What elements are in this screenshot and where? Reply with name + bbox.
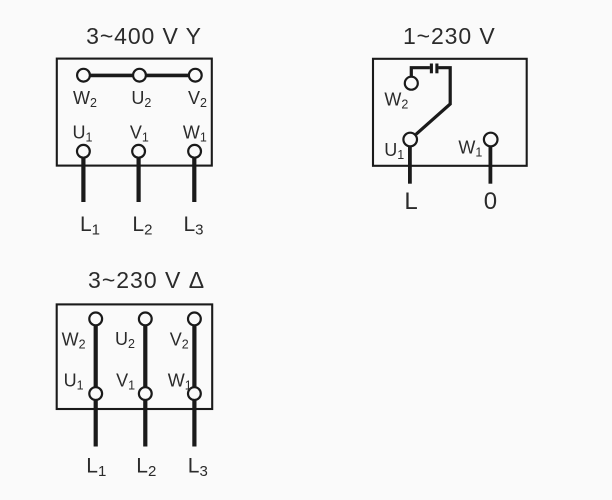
wire W1 to L3 [192,158,196,203]
wire W2 to capacitor [411,68,430,77]
wire W1 to 0 [488,147,492,184]
svg-text:1~230 V: 1~230 V [403,23,496,49]
terminal U2 [133,69,146,82]
terminal V2 (delta) [188,313,201,326]
capacitor plate 2 [435,64,438,74]
terminal V1 (delta) [139,387,152,400]
wire V2-W1 to L3 [192,323,196,447]
wire U1 to L [408,147,412,184]
svg-text:0: 0 [484,188,497,215]
terminal W1 [188,145,201,158]
wire U2-V1 to L2 [143,323,147,447]
wire W2-U1 to L1 [94,323,98,447]
wire U1 to L1 [81,158,85,203]
terminal W1 (delta) [188,387,201,400]
svg-text:L: L [404,188,417,215]
terminal W1 (1~230V) [484,133,498,147]
terminal box (1~230V) [373,59,527,166]
terminal U1 (1~230V) [403,133,417,147]
terminal W2 (delta) [89,313,102,326]
wire capacitor to U1 [416,68,450,135]
svg-text:3~230 V Δ: 3~230 V Δ [88,267,205,293]
terminal box (3~400V Y) [57,59,212,166]
bridge bar W2-U2-V2 [84,74,196,78]
terminal U2 (delta) [139,313,152,326]
terminal W2 [77,69,90,82]
terminal U1 (delta) [89,387,102,400]
terminal W2 (1~230V) [405,77,418,90]
wire V1 to L2 [137,158,141,203]
terminal V1 [132,145,145,158]
terminal V2 [189,69,202,82]
terminal U1 [77,145,90,158]
terminal box (3~230V Delta) [57,304,213,409]
svg-text:3~400 V Y: 3~400 V Y [86,23,202,49]
capacitor plate 1 [430,64,433,74]
